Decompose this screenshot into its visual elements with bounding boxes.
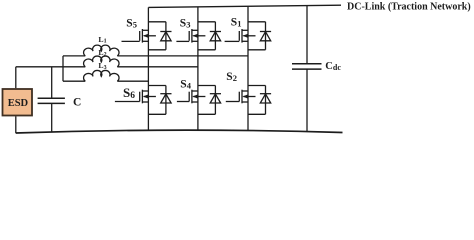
svg-text:S3: S3 <box>180 18 191 30</box>
svg-text:S2: S2 <box>226 71 237 83</box>
svg-text:L1: L1 <box>98 35 106 45</box>
svg-text:L3: L3 <box>98 61 106 71</box>
svg-text:S1: S1 <box>231 17 242 29</box>
svg-text:C: C <box>73 97 81 109</box>
svg-text:DC-Link (Traction Network): DC-Link (Traction Network) <box>347 2 471 13</box>
svg-text:Cdc: Cdc <box>325 61 341 72</box>
svg-text:S6: S6 <box>123 85 135 101</box>
svg-text:L2: L2 <box>98 48 106 58</box>
svg-text:S5: S5 <box>126 17 137 29</box>
svg-text:S4: S4 <box>180 79 191 91</box>
svg-text:ESD: ESD <box>8 98 29 109</box>
